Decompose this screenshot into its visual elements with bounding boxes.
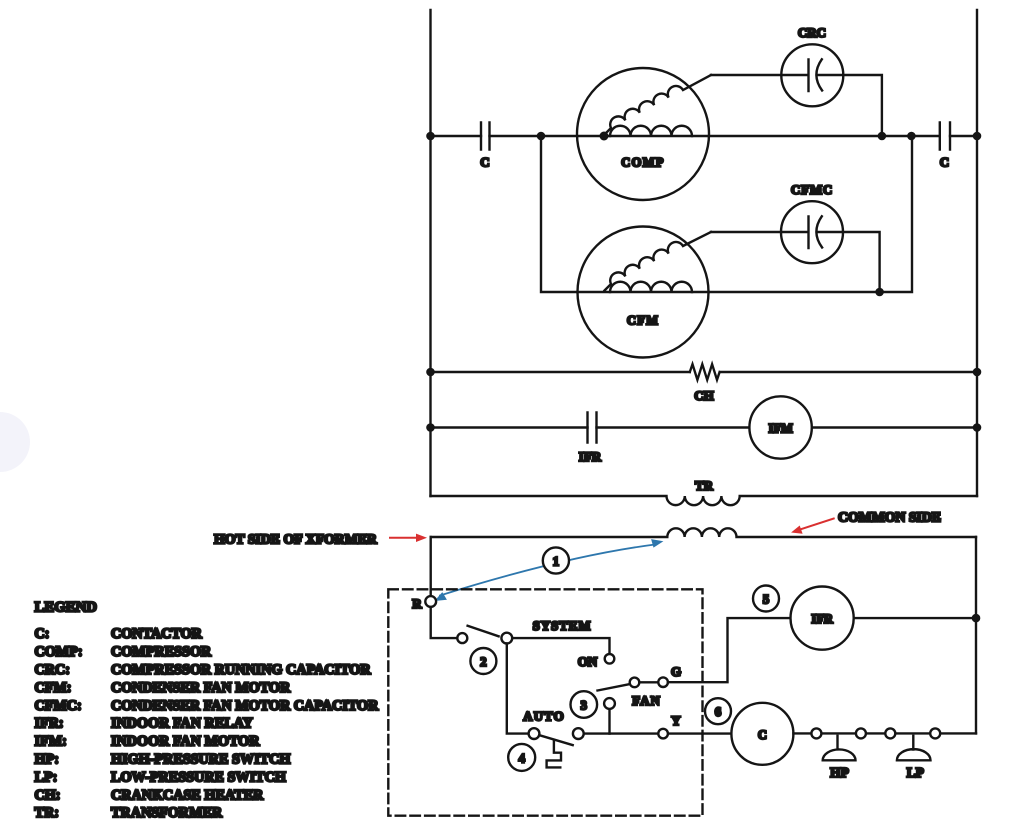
- node dot CFM drop branch on comp line: [907, 132, 916, 141]
- svg-text:COMP:: COMP:: [35, 644, 83, 660]
- node dot IFM line right: [973, 423, 982, 432]
- wire crankcase heater line: [431, 371, 978, 373]
- svg-text:6: 6: [715, 704, 722, 719]
- svg-text:2: 2: [480, 654, 487, 669]
- svg-text:5: 5: [763, 592, 770, 607]
- circled 6: [705, 698, 731, 724]
- circled 5: [753, 586, 779, 612]
- node dot rail-left / comp line: [426, 132, 435, 141]
- switch HP right contact: [856, 728, 866, 738]
- relay coil IFR circle: [791, 587, 854, 650]
- circled 4: [508, 744, 535, 771]
- wire CRC branch: [711, 75, 882, 136]
- capacitor C left contactor contact: [481, 123, 490, 150]
- node dot IFR rail: [972, 614, 981, 623]
- svg-text:CRC:: CRC:: [35, 662, 70, 678]
- switch 2 left contact: [457, 633, 467, 643]
- wire C to HP: [793, 732, 976, 734]
- svg-text:ON: ON: [578, 654, 598, 669]
- svg-text:CFMC:: CFMC:: [35, 698, 82, 714]
- wire Y to contactor: [703, 732, 732, 734]
- svg-text:C: C: [758, 728, 767, 742]
- wire IFR to rail: [854, 617, 976, 619]
- svg-text:IFR: IFR: [579, 449, 602, 464]
- svg-text:CFMC: CFMC: [791, 182, 833, 197]
- wire compressor line: [431, 135, 978, 137]
- circled 2: [470, 648, 496, 674]
- capacitor-contact IFR: [588, 413, 597, 443]
- wire system to ON: [512, 638, 609, 653]
- wire through CFM: [578, 291, 709, 293]
- capacitor CFMC circle: [781, 201, 843, 263]
- transformer TR primary line: [431, 496, 978, 505]
- svg-text:CRANKCASE HEATER: CRANKCASE HEATER: [111, 787, 264, 803]
- terminal ON circle: [605, 654, 615, 664]
- circled 1: [543, 547, 569, 573]
- svg-text:CH: CH: [694, 388, 714, 403]
- node dot CFM winding tap: [600, 288, 609, 297]
- wire Y line: [584, 732, 703, 734]
- svg-text:4: 4: [518, 750, 525, 765]
- switch 3 fan pivot contact: [604, 698, 615, 709]
- switch 2 right contact: [501, 633, 512, 644]
- switch 3 fan blade: [598, 684, 631, 691]
- CFM start winding: [605, 232, 712, 291]
- svg-text:COMP: COMP: [621, 156, 664, 170]
- wire CFMC branch: [711, 232, 880, 292]
- wire L1 left rail: [429, 10, 431, 496]
- terminal G circle: [658, 677, 668, 687]
- capacitor CRC circle: [781, 44, 843, 106]
- node dot comp line right rail: [973, 132, 982, 141]
- thermostat dashed box: [388, 589, 702, 815]
- contactor coil C circle: [731, 703, 793, 765]
- wire hot side vertical to R: [430, 537, 432, 596]
- transformer TR secondary line: [431, 528, 976, 537]
- svg-text:HP: HP: [830, 765, 849, 780]
- arrow blue 1 double-headed: [435, 539, 664, 601]
- svg-text:INDOOR FAN RELAY: INDOOR FAN RELAY: [111, 716, 253, 732]
- switch 4 auto blade: [539, 735, 572, 745]
- svg-text:COMPRESSOR RUNNING CAPACITOR: COMPRESSOR RUNNING CAPACITOR: [111, 662, 371, 678]
- LP diaphragm: [897, 736, 931, 761]
- switch LP right contact: [930, 728, 940, 738]
- terminal Y circle: [658, 729, 668, 739]
- motor IFM circle: [749, 396, 811, 458]
- wire through CFMC: [783, 231, 841, 233]
- CFM run winding: [610, 282, 692, 292]
- svg-text:IFM: IFM: [768, 422, 793, 436]
- node dot IFM line left: [426, 423, 435, 432]
- svg-text:HIGH-PRESSURE SWITCH: HIGH-PRESSURE SWITCH: [111, 752, 290, 768]
- svg-text:CRC: CRC: [798, 25, 826, 40]
- switch 4 auto right contact: [573, 728, 584, 739]
- wire G exits box: [668, 618, 791, 682]
- wire system down to auto: [507, 644, 529, 734]
- svg-text:G: G: [671, 664, 681, 679]
- svg-text:IFR:: IFR:: [35, 716, 64, 732]
- svg-text:COMPRESSOR: COMPRESSOR: [111, 644, 212, 660]
- node dot CH left: [426, 368, 435, 377]
- svg-text:C:: C:: [35, 626, 50, 642]
- circled 3: [571, 691, 598, 718]
- svg-text:HP:: HP:: [35, 752, 59, 768]
- COMP run winding: [610, 126, 692, 136]
- node dot CFMC drop on CFM line: [875, 288, 884, 297]
- svg-text:CONDENSER FAN MOTOR: CONDENSER FAN MOTOR: [111, 680, 291, 696]
- terminal R circle: [425, 596, 436, 607]
- svg-text:LP: LP: [907, 765, 924, 780]
- wire L2 right rail upper: [976, 10, 978, 496]
- switch 3 fan contact A: [630, 678, 640, 688]
- svg-text:LOW-PRESSURE SWITCH: LOW-PRESSURE SWITCH: [111, 769, 286, 785]
- svg-text:CONTACTOR: CONTACTOR: [111, 626, 203, 642]
- arrow red hot side: [390, 534, 427, 542]
- svg-text:CFM:: CFM:: [35, 680, 72, 696]
- HP diaphragm: [823, 736, 856, 761]
- resistor CH: [690, 364, 720, 380]
- switch 2 system blade: [468, 626, 499, 637]
- arrow red common side: [791, 519, 834, 534]
- svg-text:CFM: CFM: [627, 314, 659, 328]
- CFMC capacitor symbol: [809, 216, 823, 248]
- svg-text:C: C: [480, 155, 489, 170]
- svg-text:LEGEND: LEGEND: [35, 600, 98, 616]
- svg-text:Y: Y: [671, 713, 681, 728]
- svg-text:CH:: CH:: [35, 787, 61, 803]
- svg-text:AUTO: AUTO: [523, 709, 565, 724]
- svg-text:LP:: LP:: [35, 769, 58, 785]
- svg-text:CONDENSER FAN MOTOR CAPACITOR: CONDENSER FAN MOTOR CAPACITOR: [111, 698, 379, 714]
- motor CFM circle: [578, 227, 709, 358]
- svg-text:R: R: [412, 596, 422, 611]
- motor COMP circle: [577, 68, 709, 200]
- scan artifact blue smudge: [0, 412, 30, 472]
- svg-text:TRANSFORMER: TRANSFORMER: [111, 805, 223, 821]
- node dot CRC drop on comp line: [878, 132, 887, 141]
- svg-text:C: C: [940, 155, 949, 170]
- wire CFM line: [541, 136, 912, 292]
- CRC capacitor symbol: [809, 59, 823, 91]
- wire right rail lower (common side drop): [975, 537, 977, 733]
- wire through CRC: [783, 74, 842, 76]
- svg-text:TR:: TR:: [35, 805, 59, 821]
- switch LP left contact: [885, 728, 895, 738]
- wire fan contact link: [639, 681, 658, 683]
- svg-text:COMMON SIDE: COMMON SIDE: [838, 510, 941, 525]
- legend entries: [35, 626, 380, 821]
- svg-text:FAN: FAN: [632, 693, 661, 708]
- svg-text:1: 1: [553, 554, 560, 569]
- switch HP left contact: [811, 728, 821, 738]
- svg-text:HOT SIDE OF XFORMER: HOT SIDE OF XFORMER: [214, 532, 378, 547]
- wire fan pivot down: [608, 709, 610, 734]
- node dot CH right: [973, 368, 982, 377]
- svg-text:3: 3: [581, 698, 588, 713]
- svg-text:SYSTEM: SYSTEM: [533, 618, 592, 633]
- svg-text:INDOOR FAN MOTOR: INDOOR FAN MOTOR: [111, 734, 260, 750]
- svg-text:TR: TR: [695, 478, 714, 493]
- node dot COMP winding tap: [600, 132, 609, 141]
- node dot comp line branch to CFM: [537, 132, 546, 141]
- switch 4 auto left contact: [529, 728, 540, 739]
- svg-text:IFM:: IFM:: [35, 734, 67, 750]
- COMP start winding: [605, 75, 712, 135]
- anticipator staircase: [547, 740, 561, 767]
- wire indoor fan line: [431, 426, 978, 428]
- wire R to system switch: [431, 607, 457, 638]
- svg-text:IFR: IFR: [811, 612, 834, 626]
- capacitor C right contactor contact: [940, 123, 950, 150]
